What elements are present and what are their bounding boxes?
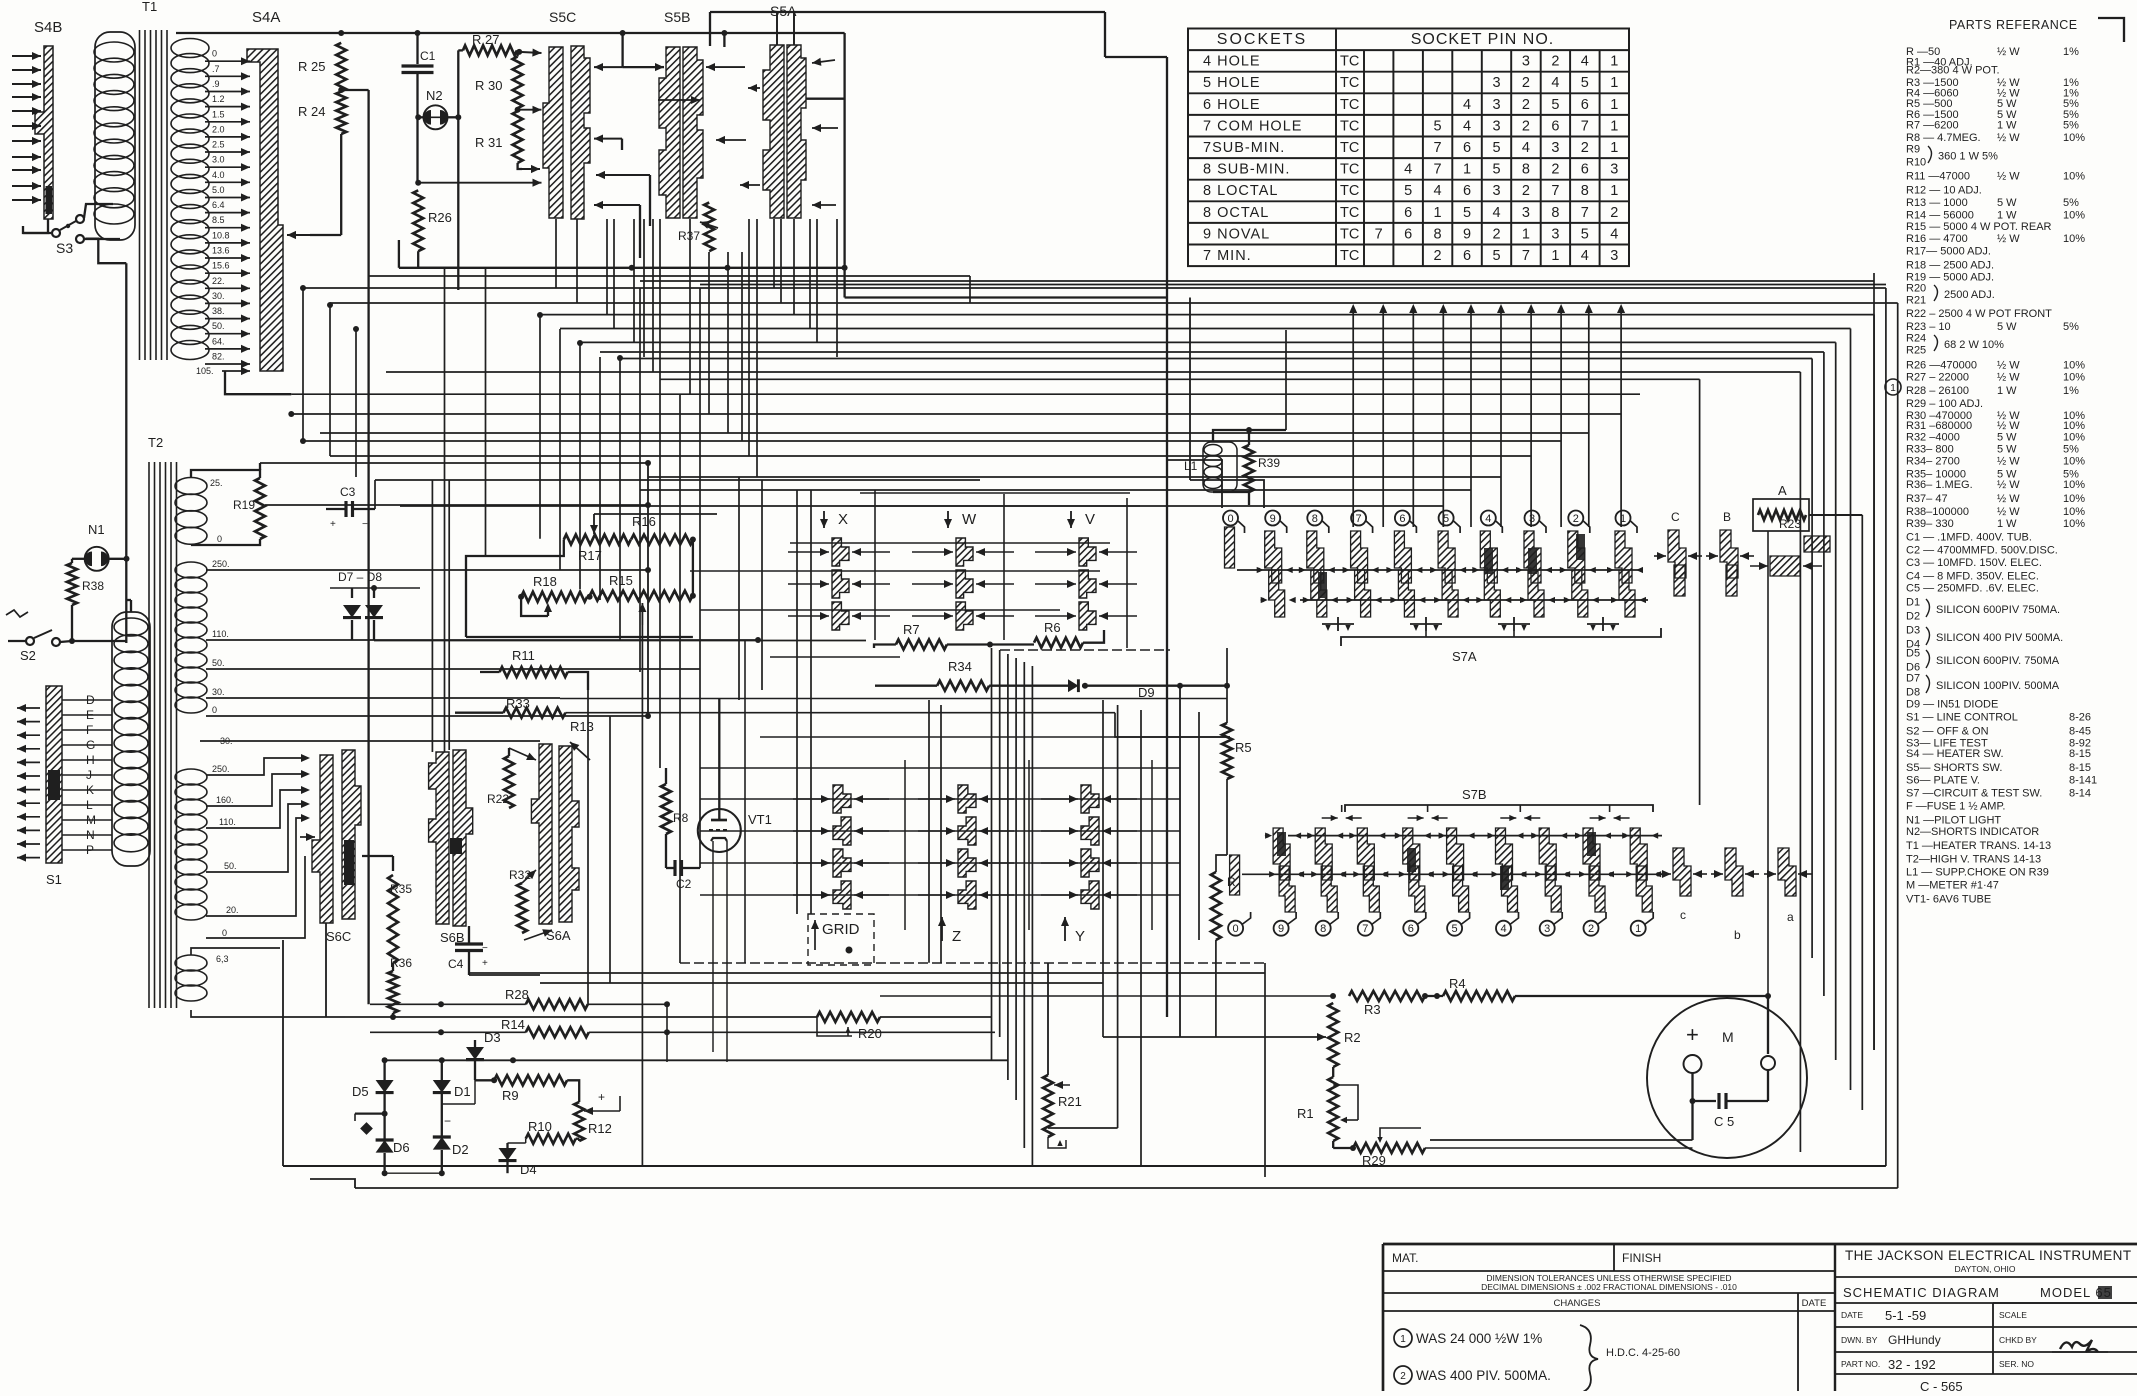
svg-text:3: 3 xyxy=(1522,54,1530,70)
svg-text:3: 3 xyxy=(1610,162,1618,178)
svg-text:R16: R16 xyxy=(632,514,656,529)
svg-text:WAS 400 PIV. 500MA.: WAS 400 PIV. 500MA. xyxy=(1416,1368,1551,1383)
svg-text:D2: D2 xyxy=(452,1142,469,1157)
svg-text:5%: 5% xyxy=(2063,197,2079,209)
svg-text:250.: 250. xyxy=(212,764,230,774)
svg-text:7: 7 xyxy=(1581,205,1589,221)
svg-text:4 HOLE: 4 HOLE xyxy=(1203,54,1261,70)
svg-text:1 W: 1 W xyxy=(1997,518,2017,530)
svg-text:THE JACKSON ELECTRICAL INSTRUM: THE JACKSON ELECTRICAL INSTRUMENT xyxy=(1845,1248,2131,1263)
svg-text:S2 — OFF & ON: S2 — OFF & ON xyxy=(1906,726,1989,738)
svg-text:3: 3 xyxy=(1492,97,1500,113)
svg-text:+: + xyxy=(330,519,336,530)
svg-text:R20: R20 xyxy=(858,1026,882,1041)
svg-text:D2: D2 xyxy=(1906,611,1920,623)
svg-text:R34– 2700: R34– 2700 xyxy=(1906,455,1960,467)
svg-text:R11: R11 xyxy=(512,648,535,663)
svg-text:R16 — 4700: R16 — 4700 xyxy=(1906,233,1968,245)
svg-text:C3 — 10MFD. 150V. ELEC.: C3 — 10MFD. 150V. ELEC. xyxy=(1906,557,2042,569)
svg-text:½ W: ½ W xyxy=(1997,493,2020,505)
svg-text:TC: TC xyxy=(1340,118,1359,134)
svg-text:S5B: S5B xyxy=(664,9,690,25)
svg-text:R26: R26 xyxy=(428,210,452,225)
svg-text:10%: 10% xyxy=(2063,455,2085,467)
svg-text:3: 3 xyxy=(1610,248,1618,264)
svg-text:7SUB-MIN.: 7SUB-MIN. xyxy=(1203,140,1285,156)
svg-text:105.: 105. xyxy=(196,366,214,376)
svg-text:R2: R2 xyxy=(1344,1030,1361,1045)
svg-text:6,3: 6,3 xyxy=(216,954,229,964)
svg-text:7: 7 xyxy=(1362,923,1368,935)
svg-text:6: 6 xyxy=(1408,923,1414,935)
svg-text:SOCKET PIN NO.: SOCKET PIN NO. xyxy=(1411,31,1555,48)
svg-text:5 W: 5 W xyxy=(1997,432,2017,444)
svg-text:7 COM HOLE: 7 COM HOLE xyxy=(1203,118,1302,134)
svg-text:1%: 1% xyxy=(2063,385,2079,397)
svg-text:½ W: ½ W xyxy=(1997,372,2020,384)
svg-text:10%: 10% xyxy=(2063,506,2085,518)
svg-text:R33– 800: R33– 800 xyxy=(1906,444,1954,456)
svg-text:22.: 22. xyxy=(212,276,225,286)
svg-text:R24: R24 xyxy=(1906,333,1926,345)
svg-text:W: W xyxy=(962,511,977,528)
svg-text:4: 4 xyxy=(1551,75,1559,91)
svg-text:0: 0 xyxy=(217,534,222,544)
svg-text:R17: R17 xyxy=(578,548,602,563)
svg-text:L1 — SUPP.CHOKE ON R39: L1 — SUPP.CHOKE ON R39 xyxy=(1906,866,2049,878)
svg-text:SILICON 100PIV. 500MA: SILICON 100PIV. 500MA xyxy=(1936,680,2060,692)
svg-text:10%: 10% xyxy=(2063,171,2085,183)
svg-text:6: 6 xyxy=(1463,140,1471,156)
svg-text:S4A: S4A xyxy=(252,9,280,26)
svg-text:10%: 10% xyxy=(2063,493,2085,505)
svg-text:3: 3 xyxy=(1492,118,1500,134)
svg-text:82.: 82. xyxy=(212,352,225,362)
svg-text:5: 5 xyxy=(1452,923,1458,935)
svg-text:S1 — LINE CONTROL: S1 — LINE CONTROL xyxy=(1906,712,2018,724)
svg-text:25.: 25. xyxy=(210,478,223,488)
svg-text:10%: 10% xyxy=(2063,518,2085,530)
svg-text:4: 4 xyxy=(1463,118,1471,134)
svg-text:5: 5 xyxy=(1551,97,1559,113)
svg-text:8 LOCTAL: 8 LOCTAL xyxy=(1203,183,1278,199)
svg-text:R 25: R 25 xyxy=(298,59,325,74)
svg-text:7 MIN.: 7 MIN. xyxy=(1203,248,1252,264)
svg-text:DECIMAL DIMENSIONS ± .002: DECIMAL DIMENSIONS ± .002 FRACTIONAL DIM… xyxy=(1481,1282,1737,1292)
svg-text:8-45: 8-45 xyxy=(2069,726,2091,738)
svg-text:C4: C4 xyxy=(448,957,464,971)
svg-text:7: 7 xyxy=(1356,513,1362,525)
svg-text:1.2: 1.2 xyxy=(212,94,225,104)
svg-text:−: − xyxy=(362,519,368,530)
svg-text:R6: R6 xyxy=(1044,620,1061,635)
svg-text:10%: 10% xyxy=(2063,209,2085,221)
svg-text:V: V xyxy=(1085,511,1095,528)
svg-text:½ W: ½ W xyxy=(1997,46,2020,58)
svg-text:68 2 W 10%: 68 2 W 10% xyxy=(1944,339,2004,351)
svg-text:T2: T2 xyxy=(148,435,163,450)
svg-text:R28: R28 xyxy=(505,987,529,1002)
svg-text:X: X xyxy=(838,511,848,528)
svg-text:+: + xyxy=(482,958,488,969)
svg-text:½ W: ½ W xyxy=(1997,360,2020,372)
svg-text:TC: TC xyxy=(1340,162,1359,178)
svg-text:6: 6 xyxy=(1551,118,1559,134)
svg-text:S7 —CIRCUIT & TEST SW.: S7 —CIRCUIT & TEST SW. xyxy=(1906,787,2042,799)
svg-text:T1 —HEATER TRANS. 14-13: T1 —HEATER TRANS. 14-13 xyxy=(1906,840,2051,852)
svg-text:3: 3 xyxy=(1551,226,1559,242)
svg-text:D3: D3 xyxy=(1906,625,1920,637)
svg-text:6.4: 6.4 xyxy=(212,200,225,210)
svg-text:5%: 5% xyxy=(2063,120,2079,132)
svg-text:S7B: S7B xyxy=(1462,787,1487,802)
svg-text:½ W: ½ W xyxy=(1997,132,2020,144)
svg-text:b: b xyxy=(1734,928,1741,942)
svg-text:6: 6 xyxy=(1404,226,1412,242)
svg-text:D6: D6 xyxy=(393,1140,410,1155)
svg-text:TC: TC xyxy=(1340,75,1359,91)
svg-text:5: 5 xyxy=(1581,75,1589,91)
svg-text:0: 0 xyxy=(1227,513,1233,525)
svg-text:−: − xyxy=(444,1114,451,1128)
svg-text:R27 – 22000: R27 – 22000 xyxy=(1906,372,1969,384)
svg-text:1.5: 1.5 xyxy=(212,109,225,119)
svg-text:R34: R34 xyxy=(948,659,972,674)
svg-text:1: 1 xyxy=(1610,118,1618,134)
svg-text:R7: R7 xyxy=(903,622,920,637)
svg-text:5 W: 5 W xyxy=(1997,321,2017,333)
svg-text:H.D.C. 4-25-60: H.D.C. 4-25-60 xyxy=(1606,1347,1680,1359)
svg-text:D7: D7 xyxy=(1906,673,1920,685)
svg-text:50.: 50. xyxy=(224,861,237,871)
svg-text:S5C: S5C xyxy=(549,9,576,25)
svg-text:½ W: ½ W xyxy=(1997,233,2020,245)
svg-text:5: 5 xyxy=(1492,140,1500,156)
svg-text:50.: 50. xyxy=(212,658,225,668)
svg-text:GHHundy: GHHundy xyxy=(1888,1333,1941,1347)
svg-text:5%: 5% xyxy=(2063,444,2079,456)
svg-text:R5: R5 xyxy=(1235,740,1252,755)
svg-text:3.0: 3.0 xyxy=(212,155,225,165)
svg-text:M —METER #1·47: M —METER #1·47 xyxy=(1906,880,1999,892)
svg-text:R15: R15 xyxy=(609,573,633,588)
svg-text:5: 5 xyxy=(1434,118,1442,134)
svg-text:R1: R1 xyxy=(1297,1106,1314,1121)
svg-text:R12: R12 xyxy=(588,1121,612,1136)
svg-text:S6— PLATE V.: S6— PLATE V. xyxy=(1906,774,1980,786)
svg-text:D1: D1 xyxy=(454,1084,471,1099)
svg-text:S5— SHORTS SW.: S5— SHORTS SW. xyxy=(1906,762,2002,774)
svg-text:R38–100000: R38–100000 xyxy=(1906,506,1969,518)
svg-text:R7 —6200: R7 —6200 xyxy=(1906,120,1959,132)
svg-text:½ W: ½ W xyxy=(1997,455,2020,467)
svg-text:10%: 10% xyxy=(2063,479,2085,491)
svg-text:4.0: 4.0 xyxy=(212,170,225,180)
svg-text:1 W: 1 W xyxy=(1997,209,2017,221)
svg-text:3: 3 xyxy=(1551,140,1559,156)
svg-text:110.: 110. xyxy=(219,817,236,827)
svg-text:1: 1 xyxy=(1610,54,1618,70)
svg-text:R37– 47: R37– 47 xyxy=(1906,493,1948,505)
svg-text:7: 7 xyxy=(1434,140,1442,156)
svg-text:8 SUB-MIN.: 8 SUB-MIN. xyxy=(1203,162,1290,178)
svg-text:5%: 5% xyxy=(2063,321,2079,333)
svg-text:c: c xyxy=(1680,908,1686,922)
svg-text:M: M xyxy=(1722,1029,1734,1045)
svg-text:S4 — HEATER SW.: S4 — HEATER SW. xyxy=(1906,748,2004,760)
svg-text:R14 — 56000: R14 — 56000 xyxy=(1906,209,1974,221)
svg-text:9: 9 xyxy=(1278,923,1284,935)
svg-text:2: 2 xyxy=(1588,923,1594,935)
svg-text:5 HOLE: 5 HOLE xyxy=(1203,75,1261,91)
svg-text:8: 8 xyxy=(1320,923,1326,935)
svg-text:R2—380 4 W POT.: R2—380 4 W POT. xyxy=(1906,65,2000,77)
svg-text:R32: R32 xyxy=(509,868,531,882)
svg-text:R3: R3 xyxy=(1364,1002,1381,1017)
svg-text:+: + xyxy=(598,1090,605,1104)
svg-text:30.: 30. xyxy=(212,291,225,301)
svg-text:4: 4 xyxy=(1485,513,1491,525)
svg-text:C: C xyxy=(1671,510,1680,524)
svg-text:C5 — 250MFD. .6V. ELEC.: C5 — 250MFD. .6V. ELEC. xyxy=(1906,583,2039,595)
svg-text:GRID: GRID xyxy=(822,921,860,938)
svg-text:T1: T1 xyxy=(142,0,157,14)
svg-text:C 5: C 5 xyxy=(1714,1114,1734,1129)
svg-text:2.0: 2.0 xyxy=(212,124,225,134)
svg-text:1: 1 xyxy=(1610,75,1618,91)
svg-text:S7A: S7A xyxy=(1452,649,1477,664)
svg-text:R9: R9 xyxy=(502,1088,519,1103)
svg-text:2: 2 xyxy=(1551,54,1559,70)
svg-text:½ W: ½ W xyxy=(1997,420,2020,432)
svg-text:R13: R13 xyxy=(570,719,594,734)
svg-text:3: 3 xyxy=(1492,183,1500,199)
svg-text:R29 – 100 ADJ.: R29 – 100 ADJ. xyxy=(1906,398,1983,410)
svg-text:20.: 20. xyxy=(226,905,239,915)
svg-text:8-26: 8-26 xyxy=(2069,712,2091,724)
svg-text:R22 – 2500 4 W POT FRONT: R22 – 2500 4 W POT FRONT xyxy=(1906,308,2052,320)
svg-text:−: − xyxy=(482,943,488,954)
svg-text:10%: 10% xyxy=(2063,372,2085,384)
svg-text:TC: TC xyxy=(1340,97,1359,113)
svg-text:1: 1 xyxy=(1635,923,1641,935)
svg-text:VT1: VT1 xyxy=(748,812,772,827)
svg-text:9: 9 xyxy=(1270,513,1276,525)
svg-text:.9: .9 xyxy=(212,79,220,89)
svg-text:C3: C3 xyxy=(340,485,356,499)
svg-text:DATE: DATE xyxy=(1841,1310,1863,1320)
svg-text:SCHEMATIC DIAGRAM: SCHEMATIC DIAGRAM xyxy=(1843,1285,2000,1300)
svg-text:6: 6 xyxy=(1399,513,1405,525)
svg-text:+: + xyxy=(1686,1022,1699,1047)
svg-text:6: 6 xyxy=(1581,162,1589,178)
svg-text:2: 2 xyxy=(1492,226,1500,242)
svg-text:1 W: 1 W xyxy=(1997,385,2017,397)
svg-text:1: 1 xyxy=(1610,97,1618,113)
svg-text:4: 4 xyxy=(1404,162,1412,178)
svg-text:4: 4 xyxy=(1610,226,1618,242)
svg-text:64.: 64. xyxy=(212,336,225,346)
svg-text:5: 5 xyxy=(1404,183,1412,199)
svg-text:3: 3 xyxy=(1529,513,1535,525)
svg-text:0: 0 xyxy=(222,928,227,938)
svg-text:D7 – D8: D7 – D8 xyxy=(338,570,382,584)
svg-text:8: 8 xyxy=(1581,183,1589,199)
svg-text:10%: 10% xyxy=(2063,233,2085,245)
svg-text:TC: TC xyxy=(1340,226,1359,242)
svg-text:C2 — 4700MMFD. 500V.DISC.: C2 — 4700MMFD. 500V.DISC. xyxy=(1906,545,2058,557)
svg-text:6: 6 xyxy=(1581,97,1589,113)
svg-text:1: 1 xyxy=(1551,248,1559,264)
svg-text:SOCKETS: SOCKETS xyxy=(1217,31,1307,48)
svg-text:5.0: 5.0 xyxy=(212,185,225,195)
svg-text:160.: 160. xyxy=(216,795,234,805)
svg-text:R38: R38 xyxy=(82,579,104,593)
svg-text:15.6: 15.6 xyxy=(212,261,230,271)
svg-text:9 NOVAL: 9 NOVAL xyxy=(1203,226,1270,242)
svg-text:R39– 330: R39– 330 xyxy=(1906,518,1954,530)
svg-text:4: 4 xyxy=(1492,205,1500,221)
svg-text:6: 6 xyxy=(1404,205,1412,221)
svg-text:TC: TC xyxy=(1340,205,1359,221)
svg-text:R13 — 1000: R13 — 1000 xyxy=(1906,197,1968,209)
svg-text:1 W: 1 W xyxy=(1997,120,2017,132)
svg-text:R18 — 2500 ADJ.: R18 — 2500 ADJ. xyxy=(1906,260,1994,272)
svg-text:R12 — 10 ADJ.: R12 — 10 ADJ. xyxy=(1906,184,1982,196)
svg-text:.7: .7 xyxy=(212,64,220,74)
svg-text:7: 7 xyxy=(1551,183,1559,199)
svg-text:TC: TC xyxy=(1340,140,1359,156)
svg-text:DWN. BY: DWN. BY xyxy=(1841,1335,1878,1345)
svg-text:10%: 10% xyxy=(2063,420,2085,432)
svg-text:3: 3 xyxy=(1544,923,1550,935)
svg-text:0: 0 xyxy=(1233,923,1239,935)
svg-text:R36– 1.MEG.: R36– 1.MEG. xyxy=(1906,479,1973,491)
svg-text:2: 2 xyxy=(1522,183,1530,199)
svg-text:R39: R39 xyxy=(1258,456,1280,470)
svg-text:DATE: DATE xyxy=(1802,1298,1827,1309)
svg-text:R 27: R 27 xyxy=(472,32,499,47)
svg-text:4: 4 xyxy=(1500,923,1506,935)
svg-text:A: A xyxy=(1778,483,1787,498)
svg-text:2500 ADJ.: 2500 ADJ. xyxy=(1944,289,1995,301)
svg-text:C1 — .1MFD. 400V. TUB.: C1 — .1MFD. 400V. TUB. xyxy=(1906,532,2032,544)
svg-text:R21: R21 xyxy=(1906,295,1926,307)
svg-text:6: 6 xyxy=(1463,248,1471,264)
svg-text:½ W: ½ W xyxy=(1997,171,2020,183)
svg-text:B: B xyxy=(1723,510,1731,524)
svg-text:PART NO.: PART NO. xyxy=(1841,1359,1880,1369)
svg-text:2: 2 xyxy=(1522,118,1530,134)
svg-text:3: 3 xyxy=(1522,205,1530,221)
svg-text:R23: R23 xyxy=(1779,517,1801,531)
svg-text:8: 8 xyxy=(1522,162,1530,178)
svg-text:D1: D1 xyxy=(1906,597,1920,609)
svg-text:6 HOLE: 6 HOLE xyxy=(1203,97,1261,113)
svg-text:R4: R4 xyxy=(1449,976,1466,991)
svg-text:110.: 110. xyxy=(212,629,229,639)
svg-text:R21: R21 xyxy=(1058,1094,1082,1109)
svg-text:R23 – 10: R23 – 10 xyxy=(1906,321,1951,333)
svg-text:8-141: 8-141 xyxy=(2069,774,2097,786)
svg-text:S6C: S6C xyxy=(326,929,351,944)
svg-text:250.: 250. xyxy=(212,559,230,569)
svg-text:8-15: 8-15 xyxy=(2069,762,2091,774)
svg-text:5: 5 xyxy=(1581,226,1589,242)
svg-text:5 W: 5 W xyxy=(1997,444,2017,456)
svg-text:8 OCTAL: 8 OCTAL xyxy=(1203,205,1269,221)
svg-text:C - 565: C - 565 xyxy=(1920,1379,1963,1391)
svg-text:4: 4 xyxy=(1434,183,1442,199)
svg-text:C1: C1 xyxy=(420,49,436,63)
svg-text:8.5: 8.5 xyxy=(212,215,225,225)
svg-text:2: 2 xyxy=(1551,162,1559,178)
svg-text:R25: R25 xyxy=(1906,345,1926,357)
svg-text:8-15: 8-15 xyxy=(2069,748,2091,760)
svg-text:1: 1 xyxy=(1400,1334,1406,1345)
svg-text:R18: R18 xyxy=(533,574,557,589)
svg-text:8: 8 xyxy=(1551,205,1559,221)
svg-text:½ W: ½ W xyxy=(1997,506,2020,518)
svg-text:8: 8 xyxy=(1312,513,1318,525)
svg-text:7: 7 xyxy=(1434,162,1442,178)
svg-text:13.6: 13.6 xyxy=(212,246,230,256)
svg-text:8: 8 xyxy=(1434,226,1442,242)
svg-text:2: 2 xyxy=(1573,513,1579,525)
svg-text:1: 1 xyxy=(1610,183,1618,199)
svg-text:TC: TC xyxy=(1340,248,1359,264)
svg-text:R17— 5000 ADJ.: R17— 5000 ADJ. xyxy=(1906,246,1991,258)
svg-text:R32 –4000: R32 –4000 xyxy=(1906,432,1960,444)
svg-text:2: 2 xyxy=(1522,75,1530,91)
svg-text:N1: N1 xyxy=(88,522,105,537)
svg-text:SILICON 600PIV 750MA.: SILICON 600PIV 750MA. xyxy=(1936,604,2060,616)
svg-text:R26 —470000: R26 —470000 xyxy=(1906,360,1977,372)
svg-text:32 - 192: 32 - 192 xyxy=(1888,1357,1936,1372)
svg-text:S1: S1 xyxy=(46,872,62,887)
svg-text:7: 7 xyxy=(1581,118,1589,134)
svg-text:R19: R19 xyxy=(233,498,255,512)
svg-text:2: 2 xyxy=(1400,1371,1406,1382)
svg-text:R15 — 5000 4 W POT. REAR: R15 — 5000 4 W POT. REAR xyxy=(1906,221,2052,233)
svg-text:360 1 W 5%: 360 1 W 5% xyxy=(1938,151,1998,163)
svg-text:R28 – 26100: R28 – 26100 xyxy=(1906,385,1969,397)
svg-text:S4B: S4B xyxy=(34,19,62,36)
svg-text:4: 4 xyxy=(1463,97,1471,113)
svg-text:S2: S2 xyxy=(20,648,36,663)
svg-text:1: 1 xyxy=(1434,205,1442,221)
svg-text:2: 2 xyxy=(1581,140,1589,156)
svg-text:CHKD BY: CHKD BY xyxy=(1999,1335,2037,1345)
svg-text:C2: C2 xyxy=(676,877,692,891)
svg-text:50.: 50. xyxy=(212,321,225,331)
svg-text:R31 –680000: R31 –680000 xyxy=(1906,420,1972,432)
svg-text:5 W: 5 W xyxy=(1997,197,2017,209)
svg-text:D4: D4 xyxy=(520,1162,537,1177)
svg-text:N1 —PILOT LIGHT: N1 —PILOT LIGHT xyxy=(1906,815,2001,827)
svg-text:D9 — IN51 DIODE: D9 — IN51 DIODE xyxy=(1906,699,1998,711)
svg-text:1: 1 xyxy=(1610,140,1618,156)
svg-text:R8 — 4.7MEG.: R8 — 4.7MEG. xyxy=(1906,132,1981,144)
svg-text:10%: 10% xyxy=(2063,432,2085,444)
svg-text:6: 6 xyxy=(1463,183,1471,199)
svg-text:Y: Y xyxy=(1075,928,1085,945)
svg-text:10.8: 10.8 xyxy=(212,230,230,240)
svg-text:½ W: ½ W xyxy=(1997,479,2020,491)
svg-text:Z: Z xyxy=(952,928,961,945)
svg-text:2.5: 2.5 xyxy=(212,140,225,150)
svg-text:VT1- 6AV6 TUBE: VT1- 6AV6 TUBE xyxy=(1906,894,1991,906)
